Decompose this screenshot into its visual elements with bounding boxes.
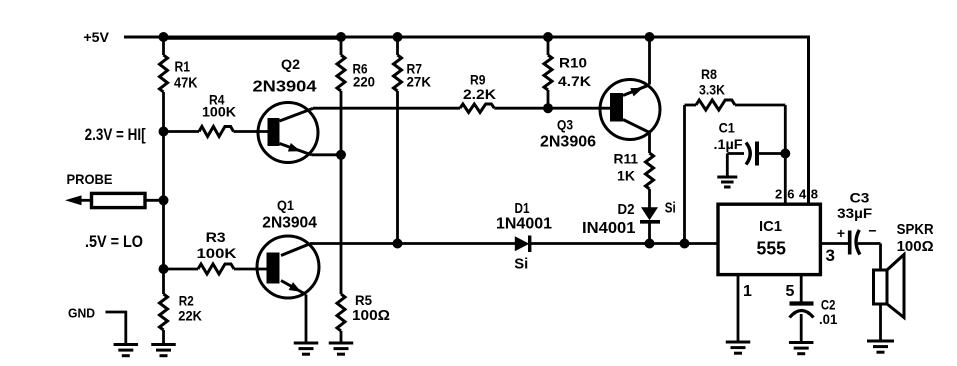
svg-text:D2: D2	[618, 202, 635, 218]
svg-text:C3: C3	[850, 190, 870, 206]
svg-text:1N4001: 1N4001	[496, 216, 552, 233]
svg-text:R10: R10	[559, 55, 587, 71]
svg-text:100K: 100K	[197, 245, 237, 261]
svg-text:2.3V = HI[: 2.3V = HI[	[85, 126, 146, 144]
svg-text:.01: .01	[819, 311, 837, 327]
svg-text:R5: R5	[355, 292, 372, 308]
svg-text:R3: R3	[206, 229, 226, 245]
svg-text:−: −	[868, 223, 876, 239]
svg-text:100Ω: 100Ω	[897, 239, 934, 255]
svg-text:R1: R1	[175, 60, 191, 76]
svg-text:GND: GND	[68, 306, 95, 321]
svg-text:2N3904: 2N3904	[262, 215, 317, 232]
svg-text:Q2: Q2	[281, 56, 300, 72]
svg-text:R11: R11	[614, 151, 639, 167]
svg-text:2N3904: 2N3904	[253, 79, 317, 96]
svg-text:Si: Si	[514, 257, 528, 273]
svg-text:2.2K: 2.2K	[463, 86, 496, 102]
svg-text:SPKR: SPKR	[897, 222, 934, 238]
svg-text:2N3906: 2N3906	[540, 134, 596, 151]
svg-text:2: 2	[775, 187, 782, 202]
svg-text:47K: 47K	[174, 76, 198, 92]
svg-text:1K: 1K	[617, 168, 635, 184]
svg-text:4.7K: 4.7K	[558, 73, 591, 89]
svg-text:.1µF: .1µF	[714, 136, 743, 152]
svg-text:4: 4	[799, 187, 807, 202]
svg-text:3: 3	[826, 246, 835, 265]
svg-text:PROBE: PROBE	[67, 171, 113, 187]
svg-text:555: 555	[757, 239, 787, 259]
svg-text:5: 5	[786, 283, 795, 300]
svg-text:33µF: 33µF	[837, 205, 872, 221]
svg-text:22K: 22K	[178, 308, 202, 324]
svg-text:100Ω: 100Ω	[352, 308, 390, 324]
svg-text:.5V = LO: .5V = LO	[85, 233, 143, 251]
svg-text:27K: 27K	[407, 74, 432, 90]
svg-text:+5V: +5V	[83, 30, 109, 45]
svg-text:Si: Si	[665, 201, 676, 217]
svg-text:R8: R8	[701, 66, 717, 82]
svg-text:100K: 100K	[202, 104, 236, 120]
svg-text:IN4001: IN4001	[582, 220, 636, 237]
svg-text:6: 6	[787, 187, 794, 202]
svg-text:220: 220	[353, 74, 375, 90]
svg-text:+: +	[837, 225, 845, 241]
svg-text:IC1: IC1	[759, 218, 782, 235]
svg-text:8: 8	[811, 187, 818, 202]
svg-text:R2: R2	[179, 293, 194, 309]
svg-text:Q1: Q1	[277, 197, 294, 213]
svg-text:3.3K: 3.3K	[699, 82, 725, 98]
svg-text:1: 1	[743, 283, 752, 300]
svg-text:C1: C1	[719, 120, 735, 136]
svg-text:Q3: Q3	[557, 117, 573, 133]
